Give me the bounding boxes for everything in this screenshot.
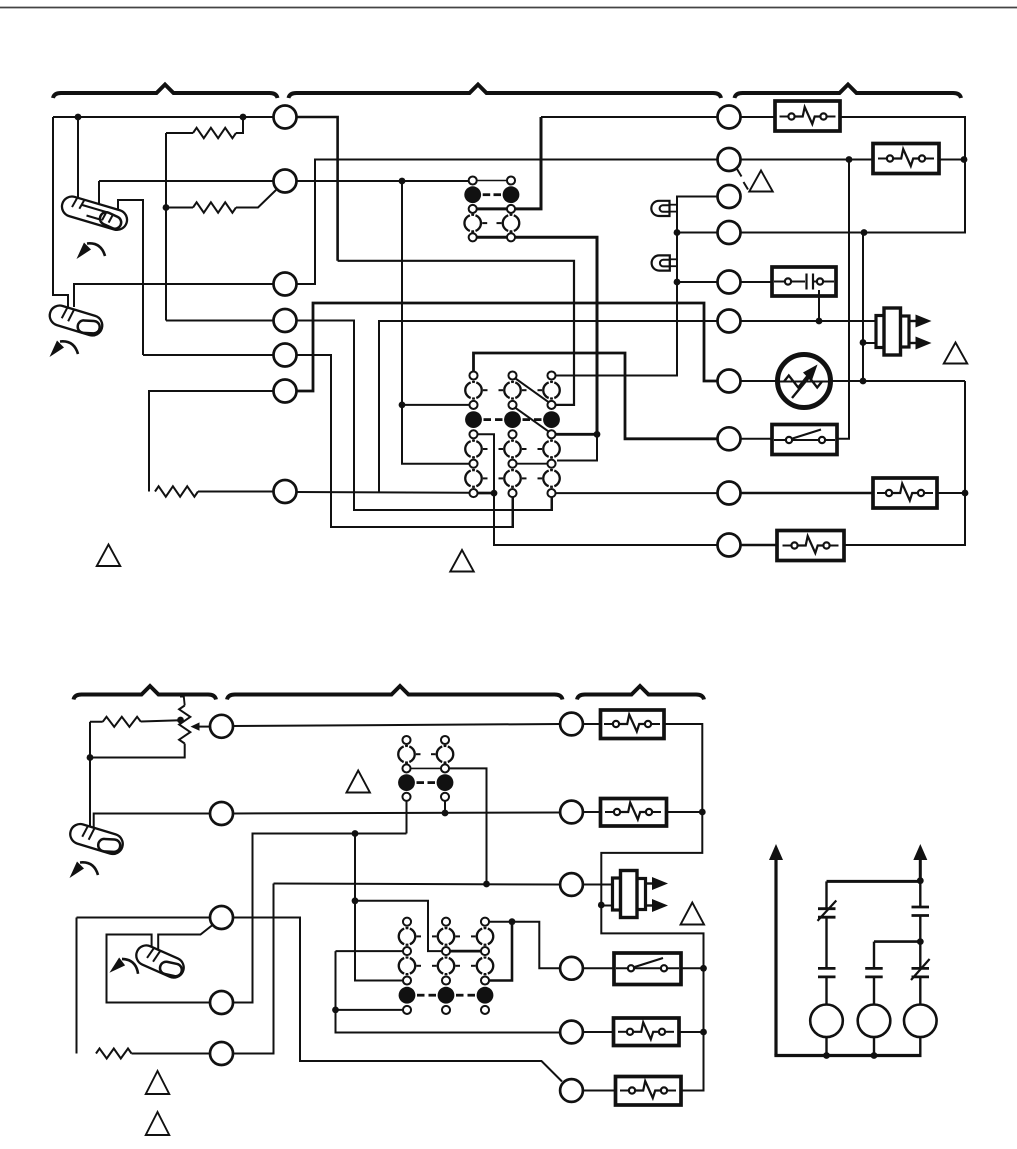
A2 small contact c1 r0 xyxy=(469,371,477,379)
resistor R4 xyxy=(103,717,141,727)
warning triangle b1 (bottom) xyxy=(146,1071,170,1094)
terminal TL6 (left column) xyxy=(274,380,297,403)
warning triangle bottom-middle of top diagram xyxy=(450,550,474,572)
A4 dash ticks open row 3 xyxy=(417,965,422,967)
A2 small contact c1 r8 xyxy=(469,489,477,497)
junction dot x355 w901 xyxy=(352,897,359,904)
warning triangle b2 (bottom) xyxy=(146,1112,170,1135)
wire bulb1 blob to vertical x143 xyxy=(118,200,143,355)
wire row1 right down to jog xyxy=(297,117,338,261)
junction dot x486 row3wire xyxy=(483,881,490,888)
A2 small contact c2 r4 xyxy=(508,430,516,438)
resistor R2 leads xyxy=(166,190,276,208)
junction dot col3 row1 xyxy=(509,918,516,925)
overbrace right section (bottom diagram) xyxy=(577,686,704,700)
resistor R1 xyxy=(193,128,236,138)
A2 small contact c3 r0 xyxy=(547,371,555,379)
junction dot TR2 wire xyxy=(846,156,853,163)
A1 contact col2 open xyxy=(503,215,508,231)
A4 dash segs filled row xyxy=(417,994,425,997)
transformer XF1 xyxy=(876,316,889,348)
power mid link xyxy=(874,940,920,943)
wire pot bottom loop xyxy=(90,744,185,758)
A2 open contact c1 r5 xyxy=(465,441,470,457)
terminal BR2 xyxy=(560,801,583,824)
junction dot row1-a xyxy=(75,114,82,121)
wire SW2 right xyxy=(681,967,704,969)
A3 col1 bottom drop xyxy=(406,801,408,834)
mercury bulb switch B4 xyxy=(133,942,187,981)
transformer XF2 xyxy=(613,878,626,910)
wire row1 left horizontal xyxy=(53,116,274,118)
A4 open contact c2 r3 xyxy=(438,958,443,974)
junction dot bus-K8 xyxy=(700,1029,707,1036)
A4 col3 drop to row5 xyxy=(489,922,512,981)
A2 crossover diagonal 2 xyxy=(516,408,550,432)
A1 contact col2 small top xyxy=(507,176,515,184)
terminal TR10 (right column) xyxy=(718,534,741,557)
A3 closed contact c1 xyxy=(398,774,415,791)
wire XF2 lower lead xyxy=(601,905,613,907)
resistor R1 leads xyxy=(166,117,243,133)
A2 col3 row5 thick wire xyxy=(555,433,597,436)
page top rule xyxy=(0,7,1017,9)
wire BL2 left down to bulb B3 xyxy=(94,814,210,833)
variable capacitor C5 xyxy=(912,967,930,970)
overbrace right section (top diagram) xyxy=(735,85,962,99)
terminal BR4 xyxy=(560,957,583,980)
contact box K3 xyxy=(772,267,836,296)
wire lamp bus to TR5 xyxy=(677,281,718,283)
wire BL2 to BR2 xyxy=(233,813,560,814)
wire K1 right down to row4 xyxy=(840,117,965,233)
vertical x90 to bulb B3 xyxy=(89,722,91,831)
A2 open contact c2 r7 xyxy=(504,471,509,487)
A4 small contact c1 r2 xyxy=(403,947,411,955)
overbrace left section (top diagram) xyxy=(53,85,278,99)
wire TR10 to relay box K5 xyxy=(741,544,778,547)
A2 dash segs filled row xyxy=(484,418,492,421)
wire row6 left horizontal xyxy=(149,391,274,492)
junction dot K2-K1 bus xyxy=(961,156,968,163)
A2 dash ticks open row 5 xyxy=(483,448,488,450)
wire TR6 left route down to row7 wire xyxy=(379,321,718,492)
capacitor C3 xyxy=(818,967,836,970)
A2 small contact c2 r8 xyxy=(508,489,516,497)
A1 contact col1 closed xyxy=(464,186,481,203)
junction dot col1 row9 xyxy=(491,490,498,497)
junction dot x863 motor row xyxy=(860,378,867,385)
A2 closed contact c3 xyxy=(543,411,560,428)
wire TR5 to contact box K3 xyxy=(741,281,773,283)
A4 open contact c3 r1 xyxy=(477,929,482,945)
wire K2 right xyxy=(939,159,965,161)
A4 closed contact c3 xyxy=(477,987,494,1004)
resistor R5 lead xyxy=(132,1053,211,1055)
A2 small contact c3 r2 xyxy=(547,401,555,409)
rotation arrow for B2 xyxy=(50,341,79,358)
terminal BL3 xyxy=(210,906,233,929)
wire row7 to contact array A2 xyxy=(297,491,495,494)
lamp bus vertical x677 xyxy=(555,197,717,376)
junction dot bus-SW2 xyxy=(700,965,707,972)
junction dot bus-K7 xyxy=(699,809,706,816)
A4 col3 row1 wire to BR4 xyxy=(489,922,560,969)
resistor R5 xyxy=(96,1049,132,1059)
A3 small contact c1 r2 xyxy=(402,764,410,772)
wire left border down xyxy=(53,117,68,309)
A2 open contact c3 r5 xyxy=(543,441,548,457)
wire row2 to contact array A1 xyxy=(297,180,470,182)
wire BR4 to switch box SW2 xyxy=(583,967,614,969)
junction dot x335 row7 xyxy=(332,1007,339,1014)
wire TR8 to switch box SW1 xyxy=(741,438,773,440)
wire PM2 bottom xyxy=(873,1037,875,1055)
resistor R2 xyxy=(193,202,236,212)
wire row4 left horizontal xyxy=(166,320,274,322)
relay box K5 xyxy=(777,531,844,561)
wire K8 right xyxy=(679,1031,704,1033)
junction dot PM2 bottom xyxy=(871,1052,878,1059)
A3 row3 link and wire right xyxy=(410,767,441,769)
A4 small contact c2 r6 xyxy=(442,1006,450,1014)
terminal TR2 (right column) xyxy=(718,148,741,171)
wire BR1 to relay box K6 xyxy=(583,723,601,725)
wire row3 left horizontal xyxy=(74,284,274,307)
terminal BR3 xyxy=(560,873,583,896)
A2 col1 row5 wire down to terminal TR10 wire xyxy=(477,434,717,545)
motor circle PM2 xyxy=(858,1005,891,1038)
A1 contact col1 open xyxy=(464,215,469,231)
junction dot row4 right xyxy=(861,229,868,236)
junction dot resistor R2 xyxy=(163,204,170,211)
A4 small contact c3 r4 xyxy=(481,976,489,984)
A3 open contact c1 xyxy=(398,746,403,762)
terminal TR5 (right column) xyxy=(718,271,741,294)
variable capacitor C1 xyxy=(818,907,836,910)
power rail right with arrow xyxy=(919,858,922,881)
A2 open contact c1 r7 xyxy=(465,471,470,487)
A1 dash segs open row xyxy=(482,222,487,224)
junction dot PM1 bottom xyxy=(823,1052,830,1059)
potentiometer wiper arrow xyxy=(198,726,211,728)
A3 open contact c2 xyxy=(437,746,442,762)
relay box K4 xyxy=(873,478,937,508)
A4 small contact c1 r6 xyxy=(403,1006,411,1014)
terminal BR5 xyxy=(560,1021,583,1044)
rotation arrow for B3 xyxy=(70,862,99,879)
junction dot power mid xyxy=(917,938,924,945)
main bus from K6 down xyxy=(601,724,703,1091)
wire SW1 up to TR2 wire xyxy=(837,160,849,439)
A2 open contact c3 r1 xyxy=(543,382,548,398)
terminal BL5 xyxy=(210,1042,233,1065)
dashed link TR2-TR3 xyxy=(737,169,742,177)
vertical x76 down to R5 xyxy=(76,918,78,1054)
terminal TR9 (right column) xyxy=(718,482,741,505)
A3 col2 bottom drop xyxy=(444,801,446,813)
A4 small contact c1 r0 xyxy=(403,918,411,926)
A2 small contact c3 r4 xyxy=(547,430,555,438)
A4 open contact c1 r1 xyxy=(399,929,404,945)
terminal TL5 (left column) xyxy=(274,344,297,367)
motor circle PM1 xyxy=(810,1005,843,1038)
mercury bulb switch B3 xyxy=(67,822,125,858)
junction dot power top xyxy=(917,877,924,884)
wire BR2 to relay box K7 xyxy=(583,811,601,813)
A2 col3 row1 wire to lamp bus xyxy=(555,375,677,377)
wire row3 up-over to right row2 xyxy=(297,160,718,285)
relay box K1 xyxy=(775,101,840,131)
A3 dash segs filled row xyxy=(417,781,425,784)
A4 small contact c3 r0 xyxy=(481,918,489,926)
A3 dash ticks open row xyxy=(416,753,421,755)
A4 closed contact c2 xyxy=(438,987,455,1004)
A2 open contact c2 r5 xyxy=(504,441,509,457)
wire transformer lower lead xyxy=(863,342,877,344)
A2 col3 row9 wire to terminal TR9 xyxy=(555,492,717,494)
bulb B4 electrode wire left loop xyxy=(107,935,211,1003)
terminal BR1 xyxy=(560,713,583,736)
warning triangle near XF1 xyxy=(944,343,968,364)
A4 open contact c1 r3 xyxy=(399,958,404,974)
resistor R3 xyxy=(155,486,198,496)
junction dot x965 row9 xyxy=(962,490,969,497)
A1 contact col1 small top xyxy=(469,176,477,184)
A2 small contact c3 r8 xyxy=(547,489,555,497)
mercury bulb switch B2 xyxy=(47,303,105,339)
overbrace middle section (top diagram) xyxy=(289,85,722,99)
A2 top wire to terminal TR8 xyxy=(474,353,718,439)
wire motor right to bus x965 xyxy=(831,380,966,382)
A4 small contact c3 r6 xyxy=(481,1006,489,1014)
wire K4 right to bus xyxy=(937,492,965,494)
A4 small contact c1 r4 xyxy=(403,976,411,984)
A1 thick link row C up and over to terminal TR1 xyxy=(477,117,541,209)
switch box SW1 xyxy=(772,425,837,455)
vertical bus x863 xyxy=(862,233,864,382)
A4 col1 row7 wire xyxy=(336,1009,404,1011)
A1 contact col2 small mid xyxy=(507,205,515,213)
relay box K7 xyxy=(601,799,667,827)
terminal TL1 (left column) xyxy=(274,106,297,129)
A4 small contact c2 r4 xyxy=(442,976,450,984)
terminal TR4 (right column) xyxy=(718,221,741,244)
wire row2 drop to bulb1 electrode2 xyxy=(98,181,100,208)
warning triangle bottom-left of top diagram xyxy=(97,545,121,567)
A1 contact col1 small mid xyxy=(469,205,477,213)
motor circle PM3 xyxy=(904,1005,937,1038)
A3 small contact c2 r2 xyxy=(441,764,449,772)
wire BL5 right up to w882 xyxy=(233,884,274,1054)
A2 crossover diagonal 1 xyxy=(516,379,550,403)
power rail left with arrow xyxy=(774,858,777,1056)
A2 open contact c1 r1 xyxy=(465,382,470,398)
relay box K8 xyxy=(614,1018,680,1046)
wire BL4 right up to A3 col1 xyxy=(233,834,407,1003)
A4 link col2-col3 row3 xyxy=(450,950,481,953)
junction dot lamp bus row5 xyxy=(674,279,681,286)
wire BL1 to BR1 xyxy=(233,724,560,726)
A2 open contact c2 r1 xyxy=(504,382,509,398)
A2 closed contact c2 xyxy=(504,411,521,428)
terminal BL2 xyxy=(210,802,233,825)
wire PM1 bottom xyxy=(825,1037,827,1055)
wire TR7 to motor xyxy=(741,380,778,382)
indicator lamp LP2 xyxy=(652,255,670,270)
A2 dash ticks open row 7 xyxy=(483,477,488,479)
wire TR1 to relay box K1 xyxy=(741,116,776,118)
A2 small contact c1 r4 xyxy=(469,430,477,438)
A1 contact col1 small bottom xyxy=(469,233,477,241)
wire row4 right down to line A xyxy=(297,321,553,511)
A2 small contact c2 r0 xyxy=(508,371,516,379)
A2 col1 row9 stub xyxy=(477,492,494,495)
terminal TL4 (left column) xyxy=(274,309,297,332)
terminal TR7 (right column) xyxy=(718,370,741,393)
wire w901 to A4 col2 xyxy=(355,901,442,951)
relay box K9 xyxy=(616,1077,682,1106)
A2 small contact c3 r6 xyxy=(547,460,555,468)
terminal TL2 (left column) xyxy=(274,170,297,193)
rotation arrow for B1 xyxy=(77,243,106,260)
A2 closed contact c1 xyxy=(465,411,482,428)
A2 small contact c2 r2 xyxy=(508,401,516,409)
wire lamp bus to TR4 xyxy=(677,232,718,234)
A4 small contact c2 r0 xyxy=(442,918,450,926)
A4 open contact c2 r1 xyxy=(438,929,443,945)
A4 closed contact c1 xyxy=(399,987,416,1004)
A1 link row A xyxy=(477,180,507,182)
capacitor C4 xyxy=(865,967,883,970)
A4 small contact c2 r2 xyxy=(442,947,450,955)
power top link xyxy=(827,880,921,883)
resistor R3 lead xyxy=(198,491,274,493)
wire TR9 to relay box K4 xyxy=(741,492,874,495)
A3 closed contact c2 xyxy=(437,774,454,791)
wire TR6 to transformer XF1 xyxy=(741,320,878,322)
power rail bottom xyxy=(774,1054,921,1057)
wire TR4 right xyxy=(741,232,865,234)
A2 jog wire to col3 row3 xyxy=(338,261,574,405)
A1 chain x597 to A2 col3 row7 xyxy=(557,434,597,460)
wire BR5 to relay box K8 xyxy=(583,1031,614,1033)
A2 col3 bottom drop to line A xyxy=(551,497,553,510)
A2 small contact c2 r6 xyxy=(508,460,516,468)
terminal TR6 (right column) xyxy=(718,310,741,333)
terminal TL7 (left column) xyxy=(274,480,297,503)
wire drop to bulb1 electrode1 xyxy=(77,117,79,205)
wire w882 to BR3 xyxy=(274,884,561,885)
junction dot pot loop xyxy=(87,754,94,761)
junction dot K3 drop xyxy=(816,318,823,325)
wire row5 left horizontal xyxy=(143,354,274,356)
junction dot x597 row5 xyxy=(594,431,601,438)
wire PM3 bottom xyxy=(919,1037,921,1055)
A4 small contact c3 r2 xyxy=(481,947,489,955)
wire x335 bus xyxy=(336,951,561,1032)
A3 small contact c2 r0 xyxy=(441,736,449,744)
terminal BL4 xyxy=(210,991,233,1014)
wire row2 left horizontal xyxy=(99,180,274,182)
junction dot bus-XF2 xyxy=(598,902,605,909)
wire row5 right down to line B xyxy=(297,355,514,527)
A2 open contact c3 r7 xyxy=(543,471,548,487)
switch box SW2 xyxy=(614,953,681,985)
A2 link col2-col3 row7 xyxy=(517,463,548,465)
A4 open contact c3 r3 xyxy=(477,958,482,974)
junction dot lamp bus row4 xyxy=(674,229,681,236)
A3 small contact c1 r0 xyxy=(402,736,410,744)
A1 dash segs filled row xyxy=(483,193,491,196)
wire BL3 right down to BR6 xyxy=(233,918,562,1082)
warning triangle mid (bottom diagram) xyxy=(346,771,370,793)
A1 contact col2 closed xyxy=(503,186,520,203)
wire row6 long route to motor terminal xyxy=(297,303,718,391)
junction dot A3 col2 drop xyxy=(442,810,449,817)
wire BR3 to transformer XF2 xyxy=(583,884,613,886)
wire K7 right xyxy=(667,811,703,813)
junction dot row1-b xyxy=(240,114,247,121)
mercury bulb switch B1 xyxy=(60,194,130,232)
terminal TR1 (right column) xyxy=(718,106,741,129)
bus x965 down to TR10 row xyxy=(844,381,965,545)
warning triangle near XF2 xyxy=(681,903,705,925)
capacitor C2 xyxy=(912,906,930,909)
overbrace left section (bottom diagram) xyxy=(74,686,217,700)
bulb B4 electrode wire right xyxy=(158,925,212,951)
junction dot on row2 wire xyxy=(399,178,406,185)
wire BL3 left xyxy=(77,917,211,919)
terminal BL1 xyxy=(210,715,233,738)
A2 dash ticks open row 1 xyxy=(483,389,488,391)
A2 small contact c1 r2 xyxy=(469,401,477,409)
junction dot lineC x355 xyxy=(352,830,359,837)
terminal TR3 (right column) xyxy=(718,185,741,208)
junction dot pot-R4 xyxy=(177,717,184,724)
potentiometer P1 top lead xyxy=(180,697,185,706)
vertical x355 to A4 col1 row5 xyxy=(355,834,403,981)
relay box K6 xyxy=(601,710,665,739)
motor/variable resistor M1 xyxy=(778,355,831,408)
A3 small contact c1 r4 xyxy=(402,793,410,801)
vertical bus x402 with branches xyxy=(402,181,470,464)
rotation arrow for B4 xyxy=(109,956,140,976)
relay box K2 xyxy=(873,144,939,174)
junction dot x863 transformer xyxy=(860,339,867,346)
junction dot x402 row3 xyxy=(399,402,406,409)
terminal TR8 (right column) xyxy=(718,427,741,450)
A3 small contact c2 r4 xyxy=(441,793,449,801)
wire BR6 to relay box K9 xyxy=(583,1090,616,1092)
terminal TL3 (left column) xyxy=(274,273,297,296)
indicator lamp LP1 xyxy=(651,201,669,216)
A4 dash ticks open row 1 xyxy=(417,935,422,937)
warning triangle near TR2 xyxy=(749,171,773,192)
vertical bus x166 xyxy=(165,133,167,321)
potentiometer P1 xyxy=(179,706,190,744)
wire K3 drop to row6 xyxy=(818,290,820,321)
terminal BR6 xyxy=(560,1079,583,1102)
overbrace middle section (bottom diagram) xyxy=(227,686,563,700)
A2 col2 bottom drop to line B xyxy=(512,497,514,527)
A2 col1 row3 wire xyxy=(402,404,470,406)
A1 contact col2 small bottom xyxy=(507,233,515,241)
resistor R4 leads xyxy=(90,720,181,722)
A1 thick link row D to x597 down xyxy=(477,237,597,434)
wire TR2 right xyxy=(741,159,874,161)
A2 small contact c1 r6 xyxy=(469,460,477,468)
